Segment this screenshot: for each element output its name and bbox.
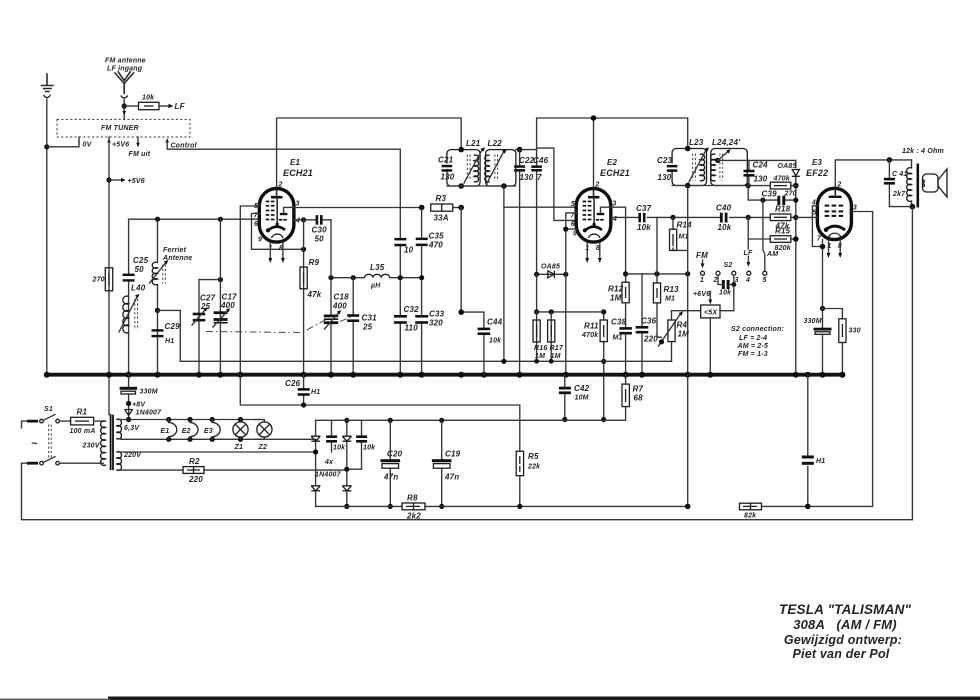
wire: E3 pin3 (g2) to right column x=872.6 xyxy=(851,212,872,506)
svg-text:R18: R18 xyxy=(775,205,791,214)
wire: heater rail top y=419.5 xyxy=(121,419,263,421)
wire: C35/C33 column x=421.6 xyxy=(421,208,423,375)
svg-text:+5V6: +5V6 xyxy=(128,178,145,185)
svg-text:130: 130 xyxy=(658,173,672,182)
diode D2 xyxy=(342,436,351,441)
svg-text:C32: C32 xyxy=(404,305,420,314)
svg-text:C38: C38 xyxy=(611,318,627,327)
node: antenna junction xyxy=(122,103,127,108)
wire: E3 pin4 loop to cathode xyxy=(812,206,822,247)
wire: C40 node down to LF point xyxy=(747,217,749,249)
svg-text:R4: R4 xyxy=(677,321,688,330)
pin Control arrow xyxy=(165,138,169,142)
svg-text:25: 25 xyxy=(200,302,211,311)
svg-text:1N4007: 1N4007 xyxy=(315,472,342,479)
svg-text:5: 5 xyxy=(571,201,575,208)
node: x=603.7 on heater rail xyxy=(601,417,606,422)
node: cathode network top xyxy=(820,306,825,311)
wire: R12/C38 column to bus xyxy=(625,303,627,375)
wire: C27 top link to C17 column xyxy=(199,279,220,281)
coil box L24 xyxy=(711,149,748,186)
svg-text:~: ~ xyxy=(31,438,38,450)
node: pin7 loop junction xyxy=(301,247,306,252)
svg-text:9: 9 xyxy=(573,231,577,238)
heater E1 symbol xyxy=(161,417,177,442)
svg-text:C23: C23 xyxy=(657,156,673,165)
transformer T1 xyxy=(82,415,143,471)
capacitor C23 130 (in left edge of L23 box) xyxy=(657,156,677,182)
node: x687 row junction xyxy=(685,271,690,276)
wire: S1 lower to transformer xyxy=(59,462,103,464)
wire: C46 branch to E2 pin6 xyxy=(537,148,577,220)
wire: antenna to 10k xyxy=(124,105,138,107)
svg-text:10M: 10M xyxy=(575,395,589,402)
pin 0V arrow on tuner xyxy=(78,137,80,143)
tube E1 ECH21 envelope xyxy=(259,189,294,243)
wire: C46 column x=536.6 xyxy=(536,148,538,274)
wire: C27 column xyxy=(198,280,200,375)
svg-text:25: 25 xyxy=(362,323,373,332)
capacitor C22 130 xyxy=(514,156,535,182)
svg-text:C37: C37 xyxy=(636,204,652,213)
wire: L21/L22 bottom line xyxy=(447,185,516,187)
capacitor C25 50 xyxy=(123,256,149,282)
wire: box bottom to bus xyxy=(709,318,711,375)
node: +8V xyxy=(126,401,131,406)
svg-text:6: 6 xyxy=(571,221,575,228)
wire: C29 tap to AVC line xyxy=(158,310,181,361)
svg-text:330: 330 xyxy=(849,328,861,335)
FM TUNER dotted box xyxy=(57,119,190,137)
svg-text:9: 9 xyxy=(258,237,262,244)
svg-text:H1: H1 xyxy=(165,338,174,345)
svg-text:10k: 10k xyxy=(333,445,346,452)
svg-text:C42: C42 xyxy=(574,384,590,393)
wire: E1 pin7 loop xyxy=(252,214,304,250)
node: pin9 loop junction xyxy=(563,227,568,232)
svg-text:10k: 10k xyxy=(637,223,651,232)
diode D3 xyxy=(311,486,320,491)
resistor R3 33k xyxy=(431,194,462,223)
svg-text:TESLA "TALISMAN": TESLA "TALISMAN" xyxy=(779,602,912,617)
svg-text:E1: E1 xyxy=(161,428,170,435)
svg-text:E2: E2 xyxy=(182,428,191,435)
svg-text:230V: 230V xyxy=(82,443,101,450)
svg-text:400: 400 xyxy=(220,301,235,310)
wire: L23 bottom column x=687.7 to bus xyxy=(687,186,689,375)
coil box L22 xyxy=(486,150,516,186)
svg-text:1M: 1M xyxy=(551,353,561,360)
coil box L23 xyxy=(672,149,706,186)
svg-text:AM: AM xyxy=(766,251,778,258)
svg-text:L21: L21 xyxy=(466,139,481,148)
svg-text:H1: H1 xyxy=(311,389,320,396)
capacitor C21 130 (in left edge of L21 box) xyxy=(438,156,455,182)
inductor L40 (tunable) xyxy=(119,284,146,333)
node: bridge junctions xyxy=(313,449,318,454)
capacitor C19 47n (electrolytic) xyxy=(432,418,461,509)
svg-text:68: 68 xyxy=(634,394,644,403)
heater arrows E3 pins 1,8 xyxy=(827,240,843,258)
wire: x=688 from bus to DC- rail xyxy=(687,375,689,507)
svg-text:100 mA: 100 mA xyxy=(70,428,96,435)
node: transformer bottom xyxy=(910,204,916,210)
tube E2 ECH21 envelope xyxy=(576,189,611,243)
svg-text:C39: C39 xyxy=(762,190,778,199)
heater E2 symbol xyxy=(182,417,198,442)
dash-dot gang line xyxy=(206,319,328,333)
svg-text:E3: E3 xyxy=(812,158,823,167)
capacitor C18 400 (variable) xyxy=(324,293,349,330)
svg-text:R7: R7 xyxy=(633,385,644,394)
wire: C36 column xyxy=(641,274,643,375)
wire: top bus segment B y=118 xyxy=(537,118,688,149)
svg-text:L35: L35 xyxy=(370,263,385,272)
wire: AVC line y=361.3 xyxy=(180,360,671,362)
svg-text:Z2: Z2 xyxy=(258,444,268,451)
node: L21 top / bottom xyxy=(458,147,464,153)
svg-text:L22: L22 xyxy=(488,139,503,148)
wire: C25/L40 column x=128.5 xyxy=(128,219,130,374)
svg-text:+6V6: +6V6 xyxy=(693,291,710,298)
svg-text:LF ingang: LF ingang xyxy=(107,66,143,73)
node: L23 top xyxy=(685,146,691,152)
wire: bottom return line y=519.7 xyxy=(22,463,913,520)
svg-text:M1: M1 xyxy=(665,296,675,303)
svg-text:OA85: OA85 xyxy=(541,264,560,271)
svg-text:50: 50 xyxy=(135,265,145,274)
svg-text:R13: R13 xyxy=(664,285,680,294)
svg-text:220: 220 xyxy=(188,475,203,484)
capacitor C26 xyxy=(285,375,320,405)
node: C22 top xyxy=(517,147,523,153)
svg-text:R5: R5 xyxy=(528,452,539,461)
svg-text:C40: C40 xyxy=(716,204,732,213)
resistor R16 1M (vertical) xyxy=(533,312,547,361)
wire: L35 line y=277.7 xyxy=(331,277,422,279)
svg-text:C24: C24 xyxy=(753,161,769,170)
svg-text:C36: C36 xyxy=(641,317,657,326)
node: cathode junction xyxy=(820,244,826,250)
svg-text:E1: E1 xyxy=(290,158,301,167)
switch S1 xyxy=(40,406,60,465)
coil box L21 xyxy=(447,150,480,186)
node: C24/R15 column top xyxy=(746,215,751,220)
resistor R18 47k xyxy=(770,205,798,231)
lamp Z2 xyxy=(255,420,272,452)
svg-text:470k: 470k xyxy=(773,176,791,183)
svg-text:+8V: +8V xyxy=(132,402,146,409)
svg-text:R15: R15 xyxy=(775,227,791,236)
svg-text:10k: 10k xyxy=(142,95,155,102)
svg-text:2: 2 xyxy=(713,277,718,284)
capacitor C38 xyxy=(611,318,632,342)
capacitor C32 110 xyxy=(394,305,419,333)
capacitor 10 xyxy=(394,238,413,255)
capacitor C40 10k (series) xyxy=(716,204,732,233)
wire: DC+ rail top y=420.3 (joins heater rail) xyxy=(316,419,626,421)
wire: x=536.6 down to R16 row xyxy=(536,274,538,312)
svg-text:3: 3 xyxy=(853,205,857,212)
wire: E1 pin5 to x=240.3 down to bus xyxy=(240,206,259,375)
resistor 470k xyxy=(748,176,796,190)
svg-text:47n: 47n xyxy=(383,473,398,482)
svg-text:EF22: EF22 xyxy=(806,168,828,178)
pin labels E1 xyxy=(254,182,301,253)
capacitor C20 47n (electrolytic) xyxy=(381,418,403,509)
svg-text:1N4007: 1N4007 xyxy=(136,410,163,417)
text: FM + arrow xyxy=(696,251,708,268)
svg-text:FM = 1-3: FM = 1-3 xyxy=(738,351,768,358)
svg-text:E2: E2 xyxy=(607,158,618,167)
node: link on C17 column xyxy=(218,277,223,282)
wire: E2 pin7 loop xyxy=(566,213,577,229)
svg-text:47n: 47n xyxy=(444,473,459,482)
svg-text:10k: 10k xyxy=(363,445,376,452)
svg-text:270: 270 xyxy=(92,277,105,284)
svg-text:C29: C29 xyxy=(165,322,181,331)
resistor R15 820k xyxy=(770,227,798,253)
node: R12 row junction xyxy=(623,271,628,276)
svg-text:C35: C35 xyxy=(429,232,445,241)
resistor 10k xyxy=(139,95,160,110)
svg-text:Control: Control xyxy=(171,143,198,150)
node: C26 bottom xyxy=(301,402,306,407)
svg-text:C 41: C 41 xyxy=(892,171,908,178)
svg-text:Gewijzigd ontwerp:: Gewijzigd ontwerp: xyxy=(784,633,902,647)
node: L35 line junctions xyxy=(328,275,333,280)
capacitor C35 470 xyxy=(416,232,444,250)
resistor R8 2k2 xyxy=(402,494,425,521)
node: R13 top xyxy=(654,271,659,276)
heater arrows E2 pins 1,8 xyxy=(585,243,601,264)
ground bus (thick) xyxy=(45,373,845,377)
svg-text:220: 220 xyxy=(643,335,658,344)
svg-text:0V: 0V xyxy=(83,142,93,149)
svg-text:5: 5 xyxy=(763,277,767,284)
svg-text:FM: FM xyxy=(696,251,708,260)
resistor 82k xyxy=(740,503,762,519)
svg-text:AM = 2-5: AM = 2-5 xyxy=(737,343,769,350)
FM antenna symbol xyxy=(115,72,134,119)
wire: heater rail bottom y=439.3 xyxy=(121,438,316,440)
diode OA85 (detector) xyxy=(537,264,566,279)
text: LF + arrow to S2 pin4 xyxy=(744,250,753,267)
node: R14 top xyxy=(670,215,675,220)
svg-text:320: 320 xyxy=(429,319,443,328)
resistor 10k on S2 (2-3) xyxy=(718,275,736,296)
capacitor C37 10k (series) xyxy=(636,204,652,232)
svg-text:400: 400 xyxy=(332,302,347,311)
svg-text:R1: R1 xyxy=(77,408,88,417)
svg-text:330M: 330M xyxy=(804,318,822,325)
node: R5 bottom xyxy=(517,504,522,509)
inductor L22 windings xyxy=(485,149,507,184)
capacitor C30 50 (series) xyxy=(304,215,331,243)
wire: C22 column x=519.6 to bus xyxy=(519,150,521,375)
svg-text:H1: H1 xyxy=(816,458,825,465)
svg-text:33A: 33A xyxy=(434,214,449,223)
box <5X (voltage stabiliser) xyxy=(701,305,720,318)
wire: E1 pin3 line to R3 xyxy=(294,207,422,209)
wire: top bus segment A y=118 xyxy=(277,118,462,188)
svg-text:S2 connection:: S2 connection: xyxy=(731,326,784,333)
svg-text:FM uit: FM uit xyxy=(129,151,151,158)
resistor 330 (vertical) xyxy=(839,319,861,375)
text: S2 connection table xyxy=(731,326,784,358)
svg-text:ECH21: ECH21 xyxy=(600,168,630,178)
bridge left column xyxy=(315,420,317,506)
svg-text:C18: C18 xyxy=(334,293,350,302)
wire: E2 pin3 to R12 column xyxy=(611,207,626,282)
wire: x=565.8 OA85 to E2 pin9 box and down to bus xyxy=(565,229,567,375)
node: R3 right xyxy=(458,205,464,211)
pin labels E3 xyxy=(811,182,857,251)
resistor 270 (vertical, on x=109) xyxy=(92,268,113,291)
svg-text:6,3V: 6,3V xyxy=(124,425,140,432)
node: C44 branch xyxy=(458,309,464,315)
pin labels E2 xyxy=(570,182,617,253)
capacitor C27 25 (variable) xyxy=(192,294,216,326)
tube E1 internals xyxy=(266,190,294,238)
output transformer primary xyxy=(907,160,918,208)
svg-text:Z1: Z1 xyxy=(234,444,244,451)
wire: S1 to R1 xyxy=(59,420,70,422)
node: +5V6 branch xyxy=(106,177,111,182)
speaker xyxy=(923,169,948,197)
wire: x=400 column (10 cap, C32) xyxy=(399,208,401,375)
svg-text:10k: 10k xyxy=(718,223,732,232)
wire: R13 column xyxy=(657,217,662,337)
wire: 220V bottom via R2 to bridge xyxy=(121,457,362,484)
capacitor 330M (electrolytic) xyxy=(804,309,832,375)
svg-text:R2: R2 xyxy=(189,457,200,466)
wire: 220V top to bridge xyxy=(121,451,316,453)
AC input terminals xyxy=(27,421,38,463)
svg-text:OA85: OA85 xyxy=(778,163,797,170)
svg-text:R8: R8 xyxy=(407,494,418,503)
svg-text:R12: R12 xyxy=(608,285,624,294)
svg-text:+5V6: +5V6 xyxy=(112,142,129,149)
node: heater rail tap xyxy=(126,417,131,422)
wire: C44 branch xyxy=(461,208,484,375)
svg-text:S2: S2 xyxy=(724,262,733,269)
svg-text:130: 130 xyxy=(441,173,455,182)
wire: stack right column x=795.8 to bus xyxy=(795,186,797,375)
resistor R12 1M (vertical) xyxy=(608,282,629,303)
inductor L35 xyxy=(365,263,390,290)
resistor R9 47k (vertical) xyxy=(300,258,322,299)
svg-text:R9: R9 xyxy=(309,258,320,267)
svg-text:10k: 10k xyxy=(719,290,732,297)
ferrite antenna coil column x=157.5 xyxy=(157,219,159,374)
svg-text:110: 110 xyxy=(405,324,419,333)
capacitor C42 10M xyxy=(559,375,590,422)
capacitor C46 7 xyxy=(531,156,548,182)
svg-text:FM antenne: FM antenne xyxy=(105,58,146,65)
node: C17 top xyxy=(218,217,223,222)
wire: R16/R17 top row xyxy=(537,311,604,313)
svg-text:6: 6 xyxy=(254,221,258,228)
svg-text:308A (AM / FM): 308A (AM / FM) xyxy=(793,617,897,632)
svg-text:L24,24': L24,24' xyxy=(712,138,741,147)
svg-text:L40: L40 xyxy=(131,284,146,293)
node: 470k right xyxy=(793,183,799,189)
svg-text:ECH21: ECH21 xyxy=(283,168,313,178)
svg-text:µH: µH xyxy=(370,283,381,290)
resistor R11 470k (vertical) xyxy=(581,309,607,419)
capacitor 10k (bridge, right) xyxy=(356,420,376,469)
svg-text:330M: 330M xyxy=(140,389,158,396)
capacitor C29 xyxy=(152,322,181,345)
svg-text:C25: C25 xyxy=(133,256,149,265)
node: L22 bottom tap xyxy=(501,183,507,189)
potentiometer R4 1M xyxy=(659,311,690,362)
node: C39 ends xyxy=(760,198,765,203)
wire: E3 pin7/cathode xyxy=(822,240,824,309)
svg-text:2: 2 xyxy=(594,182,599,189)
wire: +5V6 column x=109 down to bus xyxy=(109,137,111,415)
wire: Control line to x=400 xyxy=(167,141,400,208)
svg-text:1M: 1M xyxy=(610,294,622,303)
text: AM + wire to S2 pin5 xyxy=(763,239,778,271)
svg-text:FM TUNER: FM TUNER xyxy=(101,125,139,132)
node: ferrite top xyxy=(155,217,160,222)
node: junction 0V/ground xyxy=(44,144,49,149)
wire: row y=273.9 xyxy=(626,273,688,275)
capacitor C31 25 xyxy=(347,314,377,332)
diode 1N4007 (heater supply) xyxy=(124,410,162,417)
svg-text:C30: C30 xyxy=(312,226,328,235)
capacitor C36 220 xyxy=(636,317,659,344)
node: R16 top xyxy=(534,309,539,314)
wire: C39 left column down to R15 xyxy=(748,200,770,239)
lamp Z1 xyxy=(233,417,248,451)
svg-text:C26: C26 xyxy=(285,379,301,388)
resistor R7 68 (vertical, below bus) xyxy=(622,375,643,420)
capacitor C41 2k7 xyxy=(884,160,908,207)
svg-text:C31: C31 xyxy=(362,314,378,323)
wire: L24 tap line to OA85 xyxy=(718,159,796,161)
svg-text:2k7: 2k7 xyxy=(892,191,906,198)
wire: C41 bottom to transformer bottom xyxy=(889,206,912,208)
wire: E3 grid line from R18 xyxy=(796,216,818,218)
svg-text:C19: C19 xyxy=(445,450,461,459)
svg-text:C33: C33 xyxy=(429,310,445,319)
wire: DC- bottom rail y=506.4 xyxy=(316,505,873,507)
wire: y=405 line (C26/R5) xyxy=(240,375,520,452)
wire: R9 column xyxy=(303,220,305,375)
wire: C31 column x=353.2 xyxy=(352,278,354,375)
capacitor C33 320 xyxy=(415,310,444,328)
node: C24 bottom xyxy=(746,183,751,188)
svg-text:4: 4 xyxy=(295,218,300,225)
svg-text:LF = 2-4: LF = 2-4 xyxy=(739,335,767,342)
svg-text:82k: 82k xyxy=(744,513,757,520)
svg-text:C46: C46 xyxy=(533,156,549,165)
node: R3 left xyxy=(419,205,425,211)
svg-text:E3: E3 xyxy=(204,428,213,435)
inductor L24 windings with tap xyxy=(711,149,731,181)
capacitor H1 (tone) xyxy=(802,375,826,510)
svg-text:10: 10 xyxy=(404,246,414,255)
pin +5V6 arrow on tuner xyxy=(107,138,111,142)
svg-text:1: 1 xyxy=(700,277,704,284)
resistor R5 22k (vertical) xyxy=(516,451,541,506)
capacitor C17 400 (variable) xyxy=(213,293,237,328)
wire: L22 top to C22/C46 node xyxy=(516,149,537,151)
node: L23 bottom xyxy=(685,183,691,189)
